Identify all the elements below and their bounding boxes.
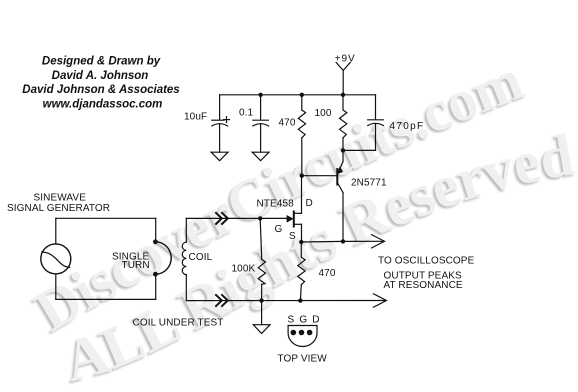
svg-text:470: 470 xyxy=(279,118,296,129)
resistor R3 100K xyxy=(258,218,265,300)
svg-text:S: S xyxy=(289,231,296,242)
single turn arc xyxy=(155,242,171,274)
pin D of package xyxy=(307,330,313,336)
svg-text:G: G xyxy=(275,224,283,235)
package outline TOP VIEW xyxy=(288,326,317,347)
wire base of Q1 to node xyxy=(302,175,338,177)
resistor R2 100 xyxy=(340,95,347,151)
junction R2/C3/Q1 emitter node xyxy=(341,148,345,152)
svg-text:10uF: 10uF xyxy=(184,112,207,123)
svg-text:TURN: TURN xyxy=(122,260,150,271)
chevron marks top wire xyxy=(215,212,228,224)
svg-text:Designed & Drawn by: Designed & Drawn by xyxy=(42,56,161,68)
node single turn bottom xyxy=(153,272,158,277)
resistor R4 470 xyxy=(298,242,305,301)
capacitor C1 10uF xyxy=(212,95,230,152)
svg-text:D: D xyxy=(306,198,313,209)
svg-text:+9V: +9V xyxy=(335,54,356,65)
junction C2 top on rail xyxy=(258,93,262,97)
svg-text:COIL: COIL xyxy=(189,252,213,263)
svg-text:COIL UNDER TEST: COIL UNDER TEST xyxy=(133,318,224,329)
junction +9V on rail xyxy=(341,93,345,97)
chevron marks bottom wire xyxy=(215,294,228,306)
junction R4 bottom on bottom rail xyxy=(298,298,302,302)
watermark ALL Rights Reserved xyxy=(55,121,578,392)
wire bottom rail to oscilloscope (lower) xyxy=(186,294,386,307)
svg-text:S G D: S G D xyxy=(288,315,321,326)
junction R3 top on gate wire xyxy=(258,216,262,220)
svg-text:TO OSCILLOSCOPE: TO OSCILLOSCOPE xyxy=(378,256,475,267)
svg-text:David A. Johnson: David A. Johnson xyxy=(52,70,149,82)
wire +9V rail xyxy=(220,94,376,96)
inductor L1 COIL xyxy=(182,218,186,300)
junction R1 top on rail xyxy=(300,93,304,97)
+9V supply symbol xyxy=(336,63,350,95)
ground under C2 xyxy=(252,152,269,161)
svg-text:SINEWAVE: SINEWAVE xyxy=(34,193,87,204)
pin S of package xyxy=(291,330,297,336)
sinewave generator loop box xyxy=(56,218,156,299)
pin G of package xyxy=(299,330,305,336)
svg-text:470pF: 470pF xyxy=(390,121,425,132)
svg-text:100K: 100K xyxy=(232,264,256,275)
watermark DiscoverCircuits.com xyxy=(22,47,531,346)
svg-text:TOP VIEW: TOP VIEW xyxy=(278,354,328,365)
ground below bottom rail xyxy=(253,301,270,334)
ground under C1 xyxy=(211,152,228,161)
JFET U1 NTE458 xyxy=(287,176,302,242)
junction ground tap on bottom rail xyxy=(259,298,263,302)
svg-text:100: 100 xyxy=(315,108,332,119)
capacitor C2 0.1 xyxy=(253,95,269,152)
svg-text:470: 470 xyxy=(319,268,336,279)
svg-text:www.djandassoc.com: www.djandassoc.com xyxy=(43,99,163,111)
svg-text:0.1: 0.1 xyxy=(239,108,254,119)
wire source node to oscilloscope (upper) xyxy=(301,235,384,248)
svg-text:David Johnson & Associates: David Johnson & Associates xyxy=(22,84,179,96)
junction R1/Q1 base/U1 drain node xyxy=(300,174,304,178)
junction U1 source node xyxy=(299,240,303,244)
capacitor C3 470pF xyxy=(343,95,384,151)
transistor Q1 2N5771 xyxy=(337,150,343,241)
svg-text:2N5771: 2N5771 xyxy=(351,178,387,189)
node single turn top xyxy=(153,239,158,244)
generator source circle xyxy=(41,244,71,274)
svg-text:SIGNAL GENERATOR: SIGNAL GENERATOR xyxy=(7,203,110,214)
svg-text:AT RESONANCE: AT RESONANCE xyxy=(384,280,463,291)
attribution text block xyxy=(22,56,179,111)
junction Q1 collector on scope wire xyxy=(341,239,345,243)
svg-text:NTE458: NTE458 xyxy=(257,199,295,210)
wire gate of U1 / coil top xyxy=(186,217,287,219)
resistor R1 470 xyxy=(298,95,305,176)
